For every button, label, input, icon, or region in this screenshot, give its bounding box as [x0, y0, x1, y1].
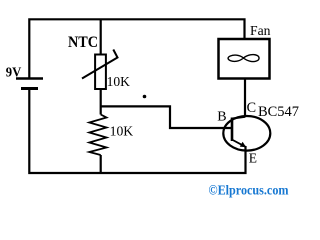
svg-text:B: B — [217, 110, 226, 125]
svg-text:NTC: NTC — [68, 34, 98, 51]
svg-text:9V: 9V — [6, 65, 22, 80]
svg-text:©Elprocus.com: ©Elprocus.com — [209, 182, 290, 197]
svg-text:C: C — [247, 100, 256, 116]
svg-text:10K: 10K — [107, 75, 130, 90]
svg-text:Fan: Fan — [250, 23, 271, 38]
svg-text:BC547: BC547 — [258, 104, 299, 120]
svg-text:10K: 10K — [110, 124, 134, 139]
svg-text:E: E — [249, 150, 257, 165]
